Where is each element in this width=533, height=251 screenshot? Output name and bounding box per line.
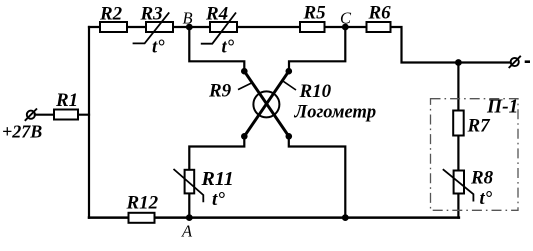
svg-text:R9: R9	[208, 81, 232, 102]
svg-text:t°: t°	[480, 189, 493, 209]
svg-text:R7: R7	[467, 116, 492, 137]
svg-text:R10: R10	[299, 81, 332, 102]
svg-text:R2: R2	[99, 4, 123, 25]
svg-text:Логометр: Логометр	[294, 103, 377, 123]
svg-text:A: A	[181, 222, 193, 241]
svg-text:R8: R8	[470, 168, 494, 189]
svg-text:R3: R3	[140, 4, 163, 25]
svg-text:R4: R4	[205, 4, 228, 25]
svg-text:+27В: +27В	[2, 122, 42, 142]
svg-text:R6: R6	[368, 3, 392, 24]
svg-text:R12: R12	[126, 193, 159, 214]
svg-text:t°: t°	[152, 37, 165, 57]
svg-text:R11: R11	[201, 168, 234, 190]
svg-text:R5: R5	[303, 3, 327, 24]
svg-text:C: C	[340, 8, 352, 27]
svg-text:R1: R1	[55, 90, 78, 111]
svg-text:B: B	[183, 9, 193, 28]
svg-text:t°: t°	[212, 189, 225, 210]
svg-text:П-1: П-1	[486, 97, 518, 118]
svg-text:t°: t°	[222, 37, 235, 57]
